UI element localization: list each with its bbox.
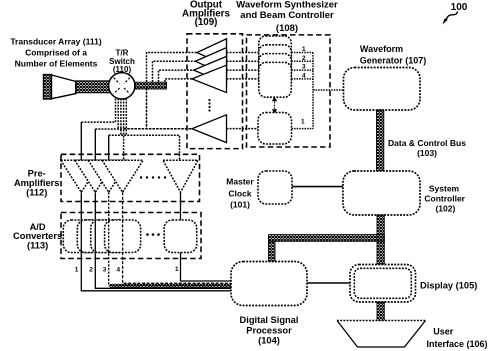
block: display 105 (double border) (350, 265, 416, 303)
label: Pre-Amplifiers (112) (14, 169, 59, 198)
svg-text:Master: Master (226, 177, 254, 187)
svg-text:Pre-: Pre- (28, 169, 46, 179)
wire: T/R bundle line 3 to pre-amp 3 (120, 99, 122, 136)
wire: pre-amp 1 through converter to bus (81, 192, 232, 290)
wire: bus to amplifier 3 apex (159, 70, 194, 85)
synthesizer channel block 2 (259, 45, 292, 80)
svg-text:Display (105): Display (105) (420, 281, 477, 291)
synthesizer channel block 4 (front) (259, 62, 292, 97)
label: Output Amplifiers (109) (182, 0, 230, 28)
ellipsis between converters (146, 233, 160, 236)
wire: amp2 input from synthesizer (227, 60, 259, 62)
svg-text:Waveform Synthesizer: Waveform Synthesizer (236, 0, 338, 11)
wire: bus down to lower amplifier apex (124, 88, 192, 129)
svg-text:Comprised of a: Comprised of a (25, 48, 87, 58)
A/D converter C2 (77, 220, 113, 253)
wire: pre-amp 3 through converter to bus (109, 192, 232, 285)
svg-text:Clock: Clock (228, 189, 251, 199)
A/D converter C4 (front) (105, 220, 141, 253)
pre-amp P3 (88, 160, 129, 192)
label: Waveform Generator (107) (360, 44, 427, 66)
wire: converter N to bus (181, 253, 233, 282)
svg-text:User: User (433, 327, 454, 337)
svg-text:Interface (106): Interface (106) (426, 339, 487, 349)
wire: bus to amplifier 4 apex (165, 79, 192, 88)
wire: collector vertical line (312, 53, 314, 129)
wire: master clock to system controller (292, 186, 343, 188)
wire: T/R switch to amplifiers (hatched bus) (135, 82, 167, 89)
svg-text:2: 2 (302, 55, 306, 62)
svg-text:Processor: Processor (246, 325, 292, 335)
A/D converter C3 (91, 220, 127, 253)
wire: T/R bundle line 4 to pre-amp 4 (123, 99, 125, 162)
label: A/D Converters (113) (13, 222, 62, 250)
wire: T/R bundle line 5 to pre-amp N (109, 99, 180, 162)
label: Master Clock (101) (226, 177, 254, 210)
T/R switch 110 (circle with X) (109, 73, 135, 99)
wire: lower amp input from lower synthesizer block (227, 128, 259, 130)
wire: bus to amplifier 1 apex (147, 53, 198, 86)
transducer array element stack (44, 75, 77, 100)
label: Waveform Synthesizer and Beam Controller (108) (236, 0, 338, 34)
synthesizer channel block 1 (259, 36, 292, 71)
block: master clock 101 (258, 171, 292, 204)
bus: branch to DSP horizontal (hatched) (269, 235, 385, 242)
block: user interface 106 (trapezoid) (337, 321, 426, 348)
svg-text:4: 4 (116, 267, 120, 274)
svg-text:1: 1 (75, 267, 79, 274)
wire: lower block to collector (292, 128, 314, 130)
pre-amp P4 (102, 160, 143, 192)
synthesizer channel block 3 (259, 54, 292, 89)
bus: system controller to display (hatched) (377, 215, 384, 265)
bus: branch to DSP vertical (hatched) (269, 241, 276, 261)
double arrow between synth blocks (272, 97, 277, 114)
svg-text:Controller: Controller (424, 193, 465, 203)
wire: amp3 input from synthesizer (227, 69, 259, 71)
wire: T/R bundle line 2 to pre-amp 2 (117, 99, 119, 130)
wire: pre-amp 4 through converter to bus (123, 192, 232, 283)
svg-text:2: 2 (89, 267, 93, 274)
svg-text:System: System (429, 183, 460, 193)
pre-amp P1 (61, 160, 102, 192)
block: system controller 102 (343, 171, 420, 215)
svg-text:1: 1 (301, 119, 305, 126)
wire: DSP to display (307, 282, 350, 284)
svg-text:Digital Signal: Digital Signal (240, 315, 299, 325)
bus: data & control bus 103 (hatched) (377, 110, 384, 171)
bus: display to user interface (hatched) (377, 302, 384, 321)
op-amp A1 (197, 39, 227, 66)
label: Transducer Array (111) (10, 37, 102, 69)
label: Digital Signal Processor (104) (240, 315, 299, 345)
op-amp A3 (194, 56, 227, 83)
svg-text:(112): (112) (26, 187, 47, 197)
box: waveform synthesizer 108 (dashed) (247, 35, 331, 147)
synthesizer lower block (beam controller) (258, 113, 292, 145)
svg-text:1: 1 (175, 266, 179, 273)
wire: T/R bundle line 1 to pre-amp 1 (81, 99, 115, 123)
svg-text:and Beam Controller: and Beam Controller (240, 10, 334, 21)
svg-text:(102): (102) (435, 204, 455, 214)
block: waveform generator 107 (344, 68, 421, 111)
svg-text:100: 100 (451, 2, 468, 13)
wire: pre-amp N to converter N (180, 192, 182, 220)
svg-text:4: 4 (302, 72, 306, 79)
block: digital signal processor 104 (231, 262, 307, 306)
lead arrow to 100 (443, 12, 458, 25)
op-amp AN (lower) (192, 115, 227, 143)
svg-text:Transducer Array (111): Transducer Array (111) (10, 37, 102, 47)
wire: synth block outputs to collector line (291, 53, 313, 79)
label: User Interface (106) (426, 327, 487, 350)
wire: synthesizer to waveform generator (313, 89, 344, 91)
op-amp A4 (192, 65, 227, 92)
pre-amp P2 (75, 160, 116, 192)
wire: pre-amp 2 through converter to bus (95, 192, 232, 288)
box: output amplifiers 109 (dashed) (187, 34, 243, 149)
svg-text:Generator (107): Generator (107) (360, 56, 427, 66)
svg-text:(113): (113) (27, 240, 48, 250)
svg-text:(108): (108) (276, 23, 298, 34)
pre-amp PN (163, 160, 198, 192)
svg-text:(109): (109) (195, 17, 218, 28)
wire: bus to amplifier 2 apex (153, 61, 196, 85)
wire: amp4 input from synthesizer (227, 78, 259, 80)
bus: A/D to DSP (hatched band) (110, 284, 232, 289)
svg-text:3: 3 (302, 64, 306, 71)
A/D converter CN (164, 220, 197, 253)
svg-text:(103): (103) (417, 148, 437, 158)
label: figure number 100 (451, 2, 468, 13)
op-amp A2 (195, 48, 226, 75)
label: Data & Control Bus (103) (388, 138, 466, 158)
svg-text:3: 3 (103, 267, 107, 274)
svg-text:Data & Control Bus: Data & Control Bus (388, 138, 466, 148)
ellipsis between pre-amps (140, 176, 166, 178)
svg-text:(101): (101) (230, 200, 250, 210)
svg-text:1: 1 (302, 46, 306, 53)
svg-text:Number of Elements: Number of Elements (15, 59, 98, 69)
wire: transducer to T/R switch (hatched bus) (76, 81, 110, 93)
A/D converter C1 (63, 220, 99, 253)
label: System Controller (102) (424, 183, 465, 213)
label: T/R Switch (110) (109, 49, 135, 75)
box: A/D converters 113 (dashed) (61, 213, 201, 259)
wire: amp1 input from synthesizer (227, 52, 259, 54)
svg-text:(104): (104) (258, 335, 280, 345)
box: pre-amplifiers 112 (dashed) (61, 154, 200, 201)
ellipsis between amplifiers (208, 99, 210, 112)
svg-text:Waveform: Waveform (360, 44, 403, 54)
